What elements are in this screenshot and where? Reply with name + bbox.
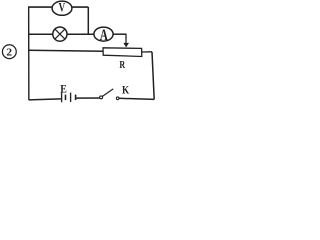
svg-text:A: A (100, 27, 109, 44)
svg-text:2: 2 (6, 47, 12, 59)
lamp wire (right segment to ammeter) (67, 33, 94, 35)
lamp (circle with X) (53, 27, 67, 41)
bottom wire (left corner to battery) (29, 99, 61, 100)
wire battery to switch (77, 97, 100, 99)
svg-text:V: V (59, 1, 66, 15)
voltmeter V (52, 1, 72, 16)
ammeter A (94, 27, 113, 44)
left vertical wire (28, 6, 30, 100)
right vertical wire (152, 52, 154, 100)
svg-text:K: K (122, 82, 130, 96)
rheostat slider arrow (down onto resistor) (123, 34, 129, 48)
top wire (voltmeter to right corner) (72, 6, 89, 8)
battery E (60, 83, 75, 102)
svg-text:R: R (119, 59, 126, 71)
wire resistor to right corner (142, 51, 152, 53)
bottom wire (switch to right corner) (119, 98, 154, 99)
lamp wire (left segment) (29, 33, 53, 35)
top wire (left segment to voltmeter) (29, 6, 53, 8)
circled number 2 (figure label) (2, 45, 16, 59)
switch K (100, 89, 119, 100)
wire ammeter to slider arrow corner (113, 33, 126, 35)
middle wire (left wire to resistor) (29, 50, 103, 51)
right drop wire of parallel branch (87, 7, 89, 34)
resistor R (rheostat box) (103, 48, 142, 57)
